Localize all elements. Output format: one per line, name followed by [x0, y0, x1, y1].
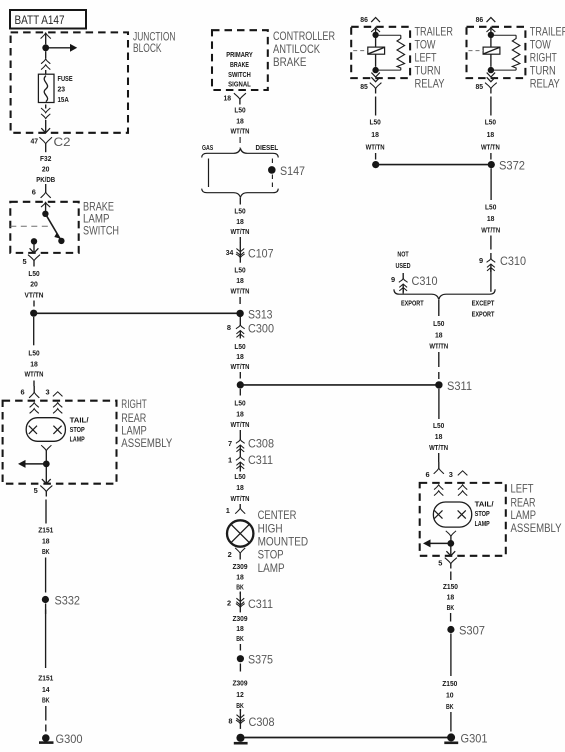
- CAB pin 18 fork: [234, 93, 246, 99]
- right relay bottom node: [488, 67, 494, 73]
- right rear lamp pin 6 connector: [33, 386, 35, 392]
- lamp pin 6 internal terminals: [30, 403, 39, 408]
- svg-text:3: 3: [45, 388, 49, 397]
- svg-text:BK: BK: [447, 603, 455, 612]
- wire dash to C311 lower: [239, 592, 241, 595]
- diesel branch wire: [271, 159, 273, 188]
- svg-text:WT/TN: WT/TN: [429, 342, 448, 351]
- wire below S372: [490, 168, 492, 200]
- svg-text:PK/DB: PK/DB: [36, 175, 55, 184]
- svg-text:L50: L50: [234, 399, 245, 408]
- park lamp feed arrow: [25, 463, 46, 465]
- svg-text:BK: BK: [236, 634, 244, 643]
- svg-text:ASSEMBLY: ASSEMBLY: [121, 436, 172, 450]
- svg-text:Z309: Z309: [232, 562, 247, 571]
- svg-text:L50: L50: [485, 203, 496, 212]
- svg-text:18: 18: [236, 483, 244, 492]
- fuse holder top terminals: [41, 59, 50, 64]
- right pin 86 chevron: [487, 18, 496, 23]
- pin 5 fork below right lamp: [40, 486, 52, 492]
- svg-text:L50: L50: [234, 342, 245, 351]
- svg-text:Z309: Z309: [232, 679, 247, 688]
- svg-text:C308: C308: [248, 437, 274, 451]
- svg-text:8: 8: [227, 323, 231, 332]
- svg-text:L50: L50: [433, 319, 444, 328]
- gas/diesel merge brace: [202, 189, 279, 198]
- wire to G301: [450, 712, 452, 732]
- center high mounted stop lamp bulb: [227, 520, 253, 546]
- right wire dash to splice: [490, 153, 492, 160]
- svg-text:86: 86: [360, 15, 368, 24]
- junction block entry connector from BATT: [41, 33, 51, 39]
- svg-text:DIESEL: DIESEL: [256, 143, 279, 152]
- svg-text:LAMP: LAMP: [70, 435, 85, 444]
- svg-text:9: 9: [479, 256, 483, 265]
- svg-text:LAMP: LAMP: [258, 561, 285, 575]
- svg-text:18: 18: [236, 410, 244, 419]
- left resistor element: [397, 35, 405, 70]
- wire down from splice: [33, 317, 35, 346]
- left relay coil feed wire: [375, 38, 377, 48]
- wire below merge: [239, 198, 241, 205]
- lamp output fork: [41, 445, 51, 450]
- svg-text:ANTILOCK: ANTILOCK: [273, 42, 320, 56]
- svg-text:L50: L50: [433, 421, 444, 430]
- svg-text:LAMP: LAMP: [475, 519, 490, 528]
- svg-text:RIGHT: RIGHT: [121, 397, 147, 411]
- left relay top node: [372, 32, 378, 38]
- svg-text:5: 5: [22, 257, 26, 266]
- svg-text:18: 18: [42, 537, 50, 546]
- right relay contact dashed link: [469, 50, 484, 52]
- svg-text:WT/TN: WT/TN: [481, 143, 500, 152]
- svg-text:TURN: TURN: [415, 64, 441, 78]
- svg-text:85: 85: [476, 82, 484, 91]
- svg-text:S332: S332: [55, 593, 81, 607]
- wire to Z150 label: [450, 572, 452, 581]
- svg-text:18: 18: [224, 94, 232, 103]
- left pin 86 chevron: [371, 18, 380, 23]
- svg-text:C300: C300: [248, 322, 274, 336]
- svg-text:LEFT: LEFT: [511, 481, 535, 495]
- svg-text:BK: BK: [446, 702, 454, 711]
- left rear lamp assembly box: [420, 483, 506, 556]
- left resistor bottom wire: [376, 69, 401, 71]
- splice junction below brake lamp switch: [30, 310, 37, 317]
- wire to C107: [239, 237, 241, 243]
- wire to S311: [438, 352, 440, 367]
- svg-text:STOP: STOP: [475, 509, 490, 518]
- connector C311 lower: [239, 593, 241, 608]
- splice S307: [447, 626, 454, 633]
- svg-text:S375: S375: [248, 653, 273, 667]
- splice S375: [237, 655, 244, 662]
- wire dash above lamp pins: [33, 381, 35, 387]
- splice to S311 junction dot: [237, 381, 244, 388]
- connector C310 except-export: [490, 253, 492, 259]
- right tail/stop lamp bulb: [26, 418, 65, 442]
- right relay output wire: [490, 97, 492, 116]
- left relay coil to bottom node: [375, 54, 377, 67]
- switch entry terminal: [41, 202, 50, 207]
- svg-text:6: 6: [32, 188, 36, 197]
- wire to Z151 label: [45, 500, 47, 524]
- svg-text:C311: C311: [248, 597, 273, 611]
- right resistor element: [512, 35, 520, 70]
- svg-text:EXCEPT: EXCEPT: [472, 299, 495, 308]
- svg-text:CONTROLLER: CONTROLLER: [273, 29, 335, 43]
- svg-text:18: 18: [371, 130, 379, 139]
- svg-text:2: 2: [227, 599, 231, 608]
- svg-text:L50: L50: [28, 269, 39, 278]
- svg-text:5: 5: [438, 559, 442, 568]
- left wire dash to splice: [375, 153, 377, 160]
- right resistor bottom wire: [491, 69, 516, 71]
- svg-text:ASSEMBLY: ASSEMBLY: [511, 521, 562, 535]
- brake lamp switch box: [10, 202, 78, 253]
- svg-text:TOW: TOW: [415, 37, 437, 51]
- svg-text:BK: BK: [42, 547, 50, 556]
- svg-text:Z309: Z309: [232, 614, 247, 623]
- svg-text:L50: L50: [234, 472, 245, 481]
- svg-text:STOP: STOP: [70, 425, 85, 434]
- svg-text:RIGHT: RIGHT: [530, 51, 557, 65]
- svg-text:Z151: Z151: [38, 674, 53, 683]
- gas/diesel split brace: [202, 148, 279, 157]
- wire dash to split: [239, 137, 241, 148]
- wire dash below S375: [239, 664, 241, 672]
- svg-text:PRIMARY: PRIMARY: [226, 50, 253, 59]
- lamp exit wire and arrowhead: [45, 467, 47, 483]
- splice S147: [268, 166, 276, 174]
- battery feed label box BATT A147: [10, 10, 86, 29]
- left relay coil: [368, 47, 385, 54]
- connector C308 upper: [239, 434, 241, 440]
- wire dash to C310 right: [490, 236, 492, 250]
- ground node below C308: [236, 734, 244, 742]
- svg-text:C310: C310: [500, 254, 526, 268]
- svg-text:WT/TN: WT/TN: [366, 143, 385, 152]
- connector C308 lower: [239, 709, 241, 724]
- svg-text:18: 18: [435, 331, 443, 340]
- svg-text:G301: G301: [461, 731, 488, 745]
- svg-text:WT/TN: WT/TN: [231, 127, 250, 136]
- svg-text:20: 20: [30, 280, 38, 289]
- svg-text:SWITCH: SWITCH: [228, 70, 251, 79]
- svg-text:USED: USED: [395, 261, 411, 270]
- wire dash to lamp pins: [438, 453, 440, 462]
- left lamp pin 6 internal terminals: [434, 485, 443, 490]
- wire to S332: [45, 558, 47, 593]
- svg-text:WT/TN: WT/TN: [231, 494, 250, 503]
- wire to G300: [45, 706, 47, 721]
- right relay coil: [483, 47, 500, 54]
- junction block box: [11, 32, 128, 132]
- wire below splice: [239, 389, 241, 396]
- svg-text:18: 18: [236, 116, 244, 125]
- wire between relay outputs S372: [376, 164, 492, 166]
- wire below S307: [450, 634, 452, 677]
- svg-text:Z150: Z150: [443, 582, 458, 591]
- switch input contact: [42, 211, 48, 217]
- svg-text:8: 8: [228, 717, 232, 726]
- connector C2 fork pin 47: [39, 137, 52, 144]
- svg-text:1: 1: [228, 455, 232, 464]
- svg-text:14: 14: [42, 685, 50, 694]
- wire from fuse to connector C2: [45, 105, 47, 109]
- right relay top node: [488, 32, 494, 38]
- splice S313: [236, 310, 243, 317]
- lamp ground junction: [43, 461, 50, 468]
- left lamp ground junction: [447, 540, 454, 547]
- svg-text:L50: L50: [234, 106, 245, 115]
- right pin 85 fork: [485, 83, 497, 89]
- svg-text:C2: C2: [54, 135, 71, 149]
- svg-text:Z150: Z150: [442, 679, 457, 688]
- svg-text:SWITCH: SWITCH: [83, 224, 119, 238]
- svg-text:L50: L50: [485, 118, 496, 127]
- splice dot inside junction block: [42, 44, 49, 51]
- wire dash to S375: [239, 644, 241, 651]
- switch output contact: [31, 238, 37, 244]
- svg-text:S311: S311: [447, 379, 472, 393]
- svg-text:S313: S313: [248, 307, 273, 321]
- left lamp pin 3 internal terminals: [458, 485, 467, 490]
- svg-text:F32: F32: [40, 154, 51, 163]
- svg-text:S372: S372: [499, 159, 525, 173]
- svg-text:3: 3: [449, 470, 453, 479]
- svg-text:5: 5: [34, 486, 38, 495]
- svg-text:18: 18: [236, 217, 244, 226]
- svg-text:C311: C311: [248, 453, 273, 467]
- svg-text:85: 85: [360, 82, 368, 91]
- stop lamp pin 2 fork: [235, 548, 245, 553]
- svg-text:18: 18: [236, 352, 244, 361]
- svg-text:TRAILER: TRAILER: [415, 24, 454, 38]
- svg-text:WT/TN: WT/TN: [231, 286, 250, 295]
- wire dash to C308: [239, 430, 241, 434]
- wire to splice: [33, 301, 35, 307]
- svg-text:RELAY: RELAY: [415, 77, 445, 91]
- svg-text:WT/TN: WT/TN: [231, 227, 250, 236]
- svg-text:WT/TN: WT/TN: [25, 370, 44, 379]
- svg-text:S307: S307: [459, 623, 485, 637]
- svg-text:34: 34: [226, 248, 234, 257]
- svg-text:BK: BK: [236, 583, 244, 592]
- junction block exit arrowhead: [41, 128, 50, 133]
- splice S372: [488, 161, 495, 168]
- svg-text:1: 1: [226, 506, 230, 515]
- svg-text:C107: C107: [248, 247, 274, 261]
- svg-text:MOUNTED: MOUNTED: [258, 535, 309, 549]
- svg-text:TURN: TURN: [530, 64, 556, 78]
- connector C300: [239, 317, 241, 320]
- ground G301: [447, 733, 455, 741]
- svg-text:18: 18: [236, 624, 244, 633]
- svg-text:S147: S147: [280, 164, 305, 178]
- svg-text:23: 23: [58, 85, 66, 94]
- wire into fuse: [45, 70, 47, 74]
- export/except-export merge brace: [394, 289, 495, 299]
- switch internal dashed link: [10, 225, 51, 227]
- right resistor top wire: [491, 34, 516, 36]
- left resistor top wire: [376, 34, 401, 36]
- svg-text:BLOCK: BLOCK: [133, 41, 162, 55]
- switch output wire and exit arrowhead: [33, 244, 35, 253]
- svg-text:18: 18: [30, 360, 38, 369]
- left trailer tow relay box: [351, 27, 410, 78]
- left lamp output fork: [446, 531, 456, 536]
- connector C311 upper: [239, 451, 241, 457]
- svg-text:18: 18: [236, 572, 244, 581]
- left pin 85 fork: [370, 83, 382, 89]
- wire below C311: [239, 470, 241, 472]
- pin 3 stub chevron: [53, 392, 63, 397]
- svg-text:HIGH: HIGH: [258, 521, 283, 535]
- left park lamp feed arrow: [430, 542, 451, 544]
- ground wire to G301: [245, 737, 452, 739]
- svg-text:6: 6: [425, 470, 429, 479]
- svg-text:20: 20: [42, 165, 50, 174]
- pin 5 fork below left lamp: [445, 558, 457, 564]
- wire below S311: [438, 389, 440, 419]
- svg-text:EXPORT: EXPORT: [401, 299, 424, 308]
- svg-text:TRAILER: TRAILER: [530, 24, 565, 38]
- left relay entry terminal: [371, 27, 380, 32]
- fuse holder bottom terminals: [41, 108, 50, 113]
- gas branch wire: [208, 159, 210, 188]
- svg-text:15A: 15A: [58, 95, 70, 104]
- svg-text:L50: L50: [234, 266, 245, 275]
- left relay bottom node: [372, 67, 378, 73]
- wire dash to S307: [450, 613, 452, 622]
- svg-text:LEFT: LEFT: [415, 51, 437, 65]
- svg-text:18: 18: [487, 130, 495, 139]
- svg-text:BRAKE: BRAKE: [230, 60, 249, 69]
- wire to C308 lower: [239, 710, 241, 712]
- svg-text:18: 18: [487, 214, 495, 223]
- left lamp pin 6 connector: [438, 462, 440, 468]
- left relay contact dashed link: [353, 50, 368, 52]
- svg-text:SIGNAL: SIGNAL: [228, 80, 251, 89]
- svg-text:L50: L50: [369, 118, 380, 127]
- fuse 23 15A symbol: [38, 74, 54, 102]
- wire splice to S311: [240, 384, 439, 386]
- wire dash to S313: [239, 297, 241, 304]
- svg-text:BATT A147: BATT A147: [15, 15, 65, 27]
- splice dot left relay output: [372, 161, 379, 168]
- connector pin 5 fork below switch: [28, 255, 40, 261]
- connector C310 export not used: [402, 273, 404, 279]
- svg-text:FUSE: FUSE: [58, 74, 73, 83]
- svg-text:TOW: TOW: [530, 37, 552, 51]
- splice S332: [42, 596, 49, 603]
- stop lamp pin 1 fork: [239, 504, 241, 508]
- brake lamp switch pin 6 connector: [45, 184, 47, 192]
- svg-text:WT/TN: WT/TN: [231, 420, 250, 429]
- svg-text:10: 10: [446, 691, 454, 700]
- svg-text:BRAKE: BRAKE: [273, 55, 307, 69]
- wire S332 down: [45, 604, 47, 615]
- svg-text:6: 6: [21, 388, 25, 397]
- switch arm: [45, 214, 61, 241]
- wire dash to splice: [239, 372, 241, 379]
- svg-text:NOT: NOT: [397, 250, 409, 259]
- right relay coil to bottom node: [490, 54, 492, 67]
- svg-text:BK: BK: [42, 696, 50, 705]
- left tail/stop lamp bulb: [433, 502, 471, 527]
- svg-text:STOP: STOP: [258, 548, 284, 562]
- svg-text:VT/TN: VT/TN: [25, 290, 44, 299]
- svg-text:86: 86: [476, 15, 484, 24]
- svg-text:C308: C308: [249, 715, 275, 729]
- right relay coil feed wire: [490, 38, 492, 48]
- controller antilock brake box: [212, 30, 268, 90]
- svg-text:12: 12: [236, 690, 244, 699]
- svg-text:TAIL/: TAIL/: [70, 416, 89, 425]
- ground G300: [42, 734, 50, 742]
- left relay output wire: [375, 97, 377, 116]
- wire splice to S313: [34, 312, 240, 314]
- right trailer tow relay box: [467, 27, 526, 78]
- pin 3 stub chevron left lamp: [458, 471, 468, 476]
- svg-text:L50: L50: [234, 207, 245, 216]
- svg-text:GAS: GAS: [202, 143, 213, 152]
- svg-text:TAIL/: TAIL/: [475, 499, 494, 508]
- right rear lamp assembly box: [3, 401, 117, 484]
- svg-text:WT/TN: WT/TN: [231, 362, 250, 371]
- switch moving contact: [58, 238, 64, 244]
- svg-text:WT/TN: WT/TN: [481, 226, 500, 235]
- svg-text:G300: G300: [56, 732, 83, 746]
- wire below merge brace: [438, 300, 440, 316]
- svg-text:18: 18: [447, 593, 455, 602]
- svg-text:Z151: Z151: [38, 526, 53, 535]
- svg-text:RELAY: RELAY: [530, 77, 560, 91]
- feed arrow to other circuits: [49, 47, 70, 49]
- svg-text:18: 18: [435, 432, 443, 441]
- left relay exit chevrons: [371, 73, 379, 77]
- connector C107: [239, 243, 241, 258]
- svg-text:EXPORT: EXPORT: [472, 309, 495, 318]
- svg-text:WT/TN: WT/TN: [429, 443, 448, 452]
- left lamp exit wire and arrowhead: [450, 547, 452, 556]
- lamp pin 3 internal terminals: [53, 403, 62, 408]
- svg-text:18: 18: [236, 276, 244, 285]
- svg-text:CENTER: CENTER: [258, 508, 297, 522]
- svg-text:BK: BK: [236, 701, 244, 710]
- svg-text:47: 47: [31, 137, 39, 146]
- wire from splice to fuse holder: [45, 51, 47, 58]
- svg-text:9: 9: [391, 275, 395, 284]
- right relay exit chevrons: [487, 73, 495, 77]
- svg-text:2: 2: [228, 550, 232, 559]
- svg-text:L50: L50: [28, 349, 39, 358]
- svg-text:C310: C310: [412, 274, 438, 288]
- right relay entry terminal: [487, 27, 496, 32]
- splice S311: [435, 381, 442, 388]
- svg-text:7: 7: [228, 439, 232, 448]
